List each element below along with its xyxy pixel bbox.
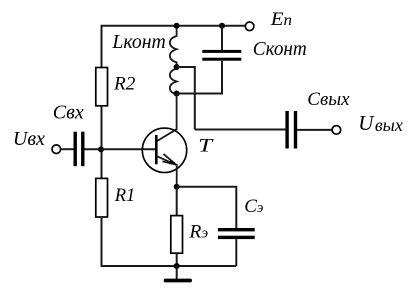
inductor Lконт (tapped coil): [170, 26, 177, 95]
node: top rail / Cконт branch: [219, 23, 225, 29]
wire: collector lead: [156, 94, 176, 142]
node: Lконт bottom / collector branch: [174, 91, 180, 97]
transistor T: body circle: [142, 128, 186, 172]
svg-text:R1: R1: [114, 186, 136, 206]
capacitor Cэ: [218, 228, 255, 239]
wire: rail down to Cконт: [221, 26, 223, 50]
wire: emitter node to Rэ: [176, 187, 178, 216]
wire: output run to Cвых: [195, 129, 286, 131]
wire: bottom rail: [101, 265, 237, 267]
svg-text:Rэ: Rэ: [188, 223, 208, 243]
wire: Cконт bottom to tank bottom: [177, 61, 222, 94]
terminal Uвых: [332, 126, 341, 135]
wire: emitter lead down to node: [176, 164, 178, 187]
resistor R1: [96, 178, 108, 217]
transistor T: base bar: [155, 135, 158, 164]
svg-text:Lконт: Lконт: [111, 31, 165, 53]
node: emitter junction: [174, 184, 180, 190]
svg-text:Сэ: Сэ: [244, 196, 263, 217]
node: base junction: [98, 146, 104, 152]
svg-text:Uвых: Uвых: [358, 111, 403, 135]
svg-text:Еп: Еп: [270, 9, 293, 30]
wire: Cвых to Uвых terminal: [297, 129, 332, 131]
svg-text:Сконт: Сконт: [253, 38, 307, 60]
wire: left trunk, R1 to bottom rail: [101, 217, 103, 266]
terminal Uвх: [52, 145, 61, 154]
ground: [164, 266, 192, 282]
capacitor Cконт: [202, 50, 241, 61]
wire: top supply rail: [101, 25, 245, 27]
node: top rail / Lконт top: [174, 23, 180, 29]
wire: left trunk, R2 to R1 through base node: [101, 106, 103, 179]
svg-text:Uвх: Uвх: [13, 128, 45, 150]
wire: Cвх to base node: [85, 148, 102, 150]
resistor Rэ: [171, 216, 183, 254]
svg-text:Свых: Свых: [307, 89, 350, 110]
svg-text:R2: R2: [113, 75, 135, 95]
terminal Еп: [245, 22, 254, 31]
node: ground junction: [174, 263, 180, 269]
resistor R2: [96, 68, 108, 106]
capacitor Cвх: [74, 132, 85, 167]
svg-text:T: T: [198, 135, 214, 156]
wire: Cэ bottom to rail: [235, 239, 237, 266]
svg-text:Свх: Свх: [53, 102, 84, 124]
transistor T: emitter with arrow: [156, 154, 176, 165]
wire: Uвх terminal to Cвх: [61, 148, 74, 150]
wire: base node to transistor base: [102, 148, 157, 150]
wire: left trunk, rail to R2: [101, 25, 103, 68]
wire: tap to output takeoff: [177, 67, 195, 130]
capacitor Cвых: [285, 111, 297, 149]
node: Lконт tap: [174, 64, 180, 70]
wire: Rэ to ground node: [176, 253, 178, 266]
wire: emitter node to Cэ top: [177, 187, 237, 228]
